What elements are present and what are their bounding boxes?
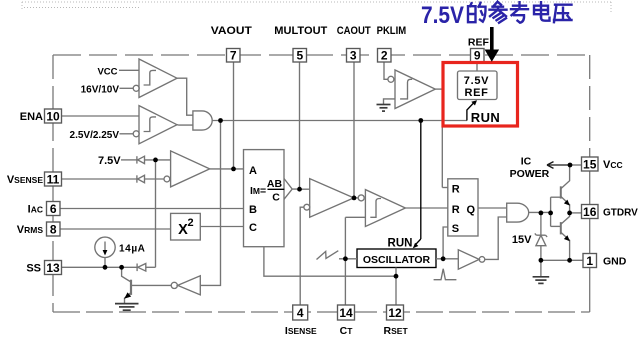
svg-text:MULTOUT: MULTOUT [274,25,327,37]
svg-text:4: 4 [297,306,304,320]
svg-text:VCC: VCC [97,66,117,77]
svg-text:S: S [452,223,459,235]
svg-text:3: 3 [350,49,357,63]
svg-text:ISENSE: ISENSE [285,325,317,337]
svg-text:7: 7 [230,49,237,63]
svg-text:2: 2 [381,49,388,63]
svg-text:2: 2 [188,217,194,229]
svg-text:IAC: IAC [28,204,43,216]
svg-text:14: 14 [339,306,353,320]
svg-text:PKLIM: PKLIM [377,25,407,37]
svg-text:13: 13 [46,261,60,275]
svg-text:POWER: POWER [510,168,550,180]
svg-text:CAOUT: CAOUT [337,25,371,37]
svg-text:VCC: VCC [603,159,623,171]
svg-text:REF: REF [464,87,488,99]
svg-text:15: 15 [583,158,597,172]
svg-text:15V: 15V [512,234,532,246]
svg-text:RUN: RUN [471,110,500,125]
svg-text:AB: AB [267,178,283,190]
svg-text:IC: IC [521,156,532,168]
svg-text:12: 12 [388,306,402,320]
svg-text:7.5V: 7.5V [421,2,464,29]
svg-text:16V/10V: 16V/10V [81,84,120,95]
svg-text:RSET: RSET [384,325,409,337]
svg-text:R: R [452,204,460,216]
svg-text:10: 10 [46,110,60,124]
svg-text:R: R [452,184,460,196]
svg-text:11: 11 [47,173,60,187]
svg-text:IM=: IM= [250,185,266,197]
svg-text:2.5V/2.25V: 2.5V/2.25V [70,130,120,141]
svg-text:5: 5 [296,49,303,63]
svg-text:GTDRV: GTDRV [603,208,638,219]
svg-text:B: B [249,204,257,216]
svg-text:VSENSE: VSENSE [7,174,43,186]
svg-text:REF: REF [468,37,490,49]
svg-text:OSCILLATOR: OSCILLATOR [363,254,431,266]
svg-text:VAOUT: VAOUT [211,25,252,37]
svg-text:A: A [249,165,257,177]
svg-text:RUN: RUN [388,237,413,249]
svg-text:6: 6 [50,202,57,216]
svg-text:9: 9 [474,49,481,63]
svg-text:GND: GND [603,256,627,268]
svg-text:8: 8 [50,223,57,237]
svg-text:C: C [249,222,257,234]
svg-text:CT: CT [340,325,354,337]
svg-text:14µA: 14µA [119,244,146,255]
svg-text:ENA: ENA [20,111,43,123]
svg-text:SS: SS [26,263,41,275]
svg-text:Q: Q [467,204,476,216]
svg-text:1: 1 [586,254,593,268]
svg-text:7.5V: 7.5V [464,75,489,87]
svg-text:C: C [272,192,280,204]
svg-text:VRMS: VRMS [17,224,44,236]
svg-text:16: 16 [583,205,597,219]
svg-text:7.5V: 7.5V [98,155,121,167]
